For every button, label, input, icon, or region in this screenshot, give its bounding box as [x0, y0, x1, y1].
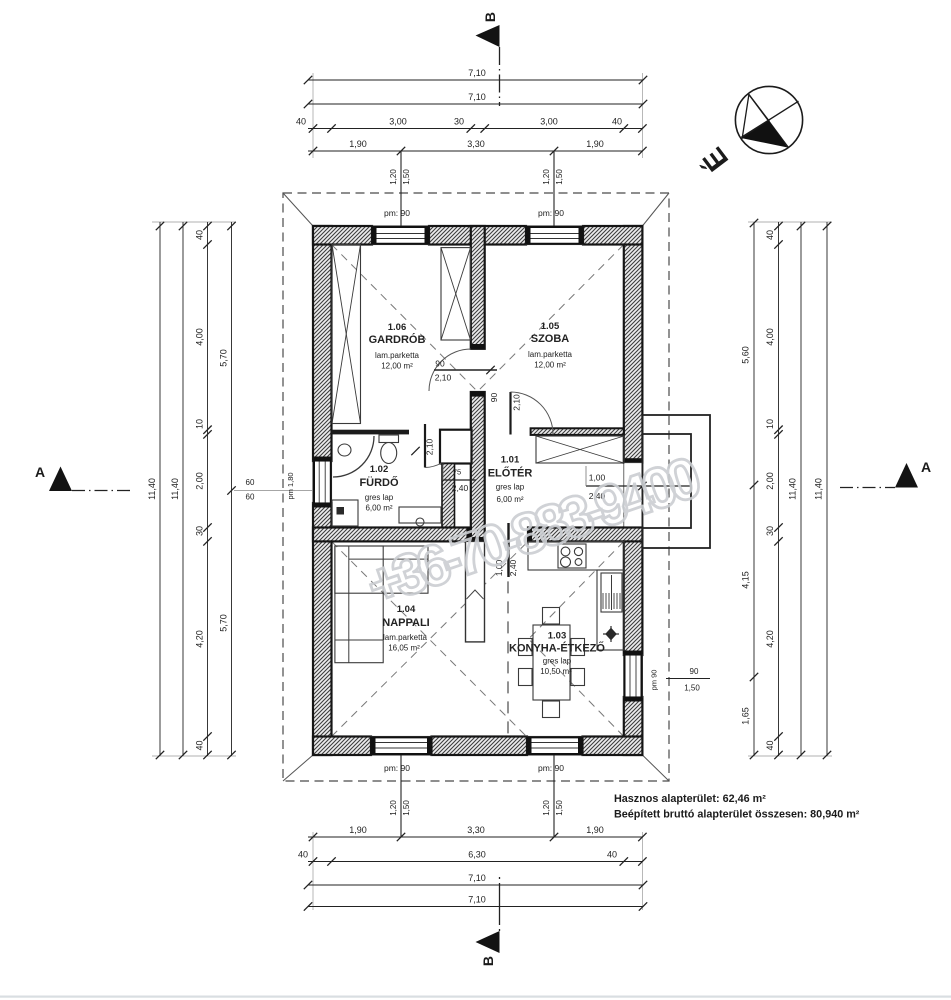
- corridor wall stub bottom cap: [471, 537, 485, 541]
- window right kitchen: [624, 655, 643, 697]
- door szoba leaf: [509, 392, 511, 435]
- dim chain L4 5,70/5,70: [219, 222, 236, 759]
- svg-text:pm: 90: pm: 90: [384, 208, 410, 218]
- chair left 1: [519, 639, 533, 656]
- svg-text:pm: 90: pm: 90: [538, 763, 564, 773]
- ceiling diagonal konyha 1: [529, 541, 624, 639]
- door szoba arc: [511, 392, 554, 435]
- sofa nappali: [335, 546, 428, 663]
- svg-text:75: 75: [453, 468, 461, 477]
- room label konyha: [509, 631, 605, 677]
- svg-text:B: B: [480, 956, 496, 966]
- svg-text:pm: 90: pm: 90: [384, 763, 410, 773]
- partition gardrob/szoba: [471, 226, 485, 349]
- svg-text:40: 40: [296, 117, 306, 127]
- right chains top connector: [748, 221, 832, 223]
- svg-text:1,20: 1,20: [389, 169, 398, 185]
- corridor wall stub top cap: [471, 392, 485, 397]
- svg-text:pm 1,80: pm 1,80: [286, 472, 295, 499]
- svg-text:gres lap: gres lap: [496, 483, 525, 492]
- window axis bottom-left: [400, 755, 402, 837]
- sill labels bottom-right: [542, 800, 564, 816]
- svg-text:2,00: 2,00: [765, 472, 775, 490]
- terrace outer outline: [642, 415, 710, 548]
- svg-text:12,00 m²: 12,00 m²: [381, 362, 413, 371]
- window axis top-right: [553, 151, 555, 226]
- svg-text:KONYHA-ÉTKEZŐ: KONYHA-ÉTKEZŐ: [509, 642, 605, 655]
- bottom wall middle block: [432, 737, 528, 756]
- wall bathroom/shaft: [440, 430, 471, 435]
- top wall right block: [583, 226, 642, 245]
- extension line bottom right: [641, 832, 643, 910]
- svg-text:1,90: 1,90: [586, 825, 604, 835]
- roof hip line bottom-left: [283, 755, 313, 781]
- svg-text:7,10: 7,10: [468, 68, 486, 78]
- svg-text:1.01: 1.01: [501, 455, 520, 466]
- chair left 2: [519, 669, 533, 686]
- section marker B top triangle: [476, 25, 500, 47]
- dim row t1 7,10: [304, 68, 647, 84]
- wall nappali north: [313, 528, 471, 542]
- svg-text:SZOBA: SZOBA: [531, 333, 570, 345]
- room label nappali: [382, 604, 429, 653]
- left outer wall upper segment: [313, 226, 332, 461]
- dim chain R1 5,60/4,15/1,65: [741, 219, 759, 759]
- svg-text:40: 40: [195, 740, 205, 750]
- section marker B bottom triangle: [476, 931, 500, 953]
- room label szoba: [528, 321, 573, 370]
- svg-text:10: 10: [765, 419, 775, 429]
- wardrobe hall: [536, 436, 624, 463]
- left window width labels 60/60: [246, 478, 255, 502]
- wall szoba/hall: [531, 428, 624, 435]
- svg-text:12,00 m²: 12,00 m²: [534, 361, 566, 370]
- svg-text:11,40: 11,40: [788, 478, 798, 500]
- svg-text:10,50 m²: 10,50 m²: [540, 667, 572, 676]
- svg-text:7,10: 7,10: [468, 895, 486, 905]
- wall bathroom/eloter: [442, 464, 455, 528]
- washing machine: [332, 500, 358, 526]
- roof eaves dashed outline: [283, 193, 669, 781]
- svg-text:2,10: 2,10: [512, 394, 522, 411]
- window bottom-right konyha: [527, 737, 583, 756]
- svg-text:1,50: 1,50: [402, 800, 411, 816]
- svg-text:11,40: 11,40: [814, 478, 824, 500]
- compass cross line 1: [741, 101, 798, 137]
- svg-text:Beépített bruttó alapterület ö: Beépített bruttó alapterület összesen: 8…: [614, 809, 860, 821]
- ceiling diagonal gardrob: [332, 245, 477, 391]
- svg-text:3,00: 3,00: [389, 117, 407, 127]
- dim chain R4 11,40: [814, 222, 832, 759]
- wardrobe gardrob top: [441, 248, 471, 340]
- window top-left gardrob: [372, 226, 429, 245]
- chair bottom: [543, 701, 560, 718]
- dim row b3 7,10: [304, 873, 647, 889]
- svg-text:1.03: 1.03: [548, 631, 567, 642]
- section marker A left triangle: [49, 467, 72, 492]
- svg-text:90: 90: [489, 393, 499, 403]
- svg-text:5,70: 5,70: [219, 349, 229, 367]
- door gardrob dim line: [434, 369, 497, 371]
- svg-text:90: 90: [690, 667, 699, 676]
- svg-text:A: A: [921, 459, 931, 475]
- terrace door dim line: [586, 485, 691, 487]
- wardrobe gardrob left: [332, 245, 361, 424]
- svg-text:pm 90: pm 90: [650, 670, 659, 691]
- svg-text:40: 40: [765, 740, 775, 750]
- svg-text:1,20: 1,20: [542, 800, 551, 816]
- dim chain L1 11,40: [147, 222, 164, 759]
- svg-text:10: 10: [195, 419, 205, 429]
- window bottom-left nappali: [371, 737, 432, 756]
- svg-text:1,50: 1,50: [684, 684, 700, 693]
- dim row b4 7,10: [304, 895, 647, 911]
- dim row t2 7,10: [304, 92, 647, 108]
- sill labels bottom-left: [389, 800, 411, 816]
- wall nappali north end cap: [466, 528, 470, 542]
- chair top: [543, 608, 560, 625]
- door nappali leaf: [466, 541, 485, 642]
- wall konyha north end cap: [528, 528, 532, 542]
- svg-text:gres lap: gres lap: [365, 493, 394, 502]
- svg-text:11,40: 11,40: [170, 478, 180, 500]
- door bathroom leaf: [424, 424, 426, 468]
- svg-text:1,50: 1,50: [555, 800, 564, 816]
- window axis top-left: [400, 151, 402, 226]
- svg-text:4,00: 4,00: [195, 328, 205, 346]
- svg-text:60: 60: [246, 493, 255, 502]
- svg-text:1,20: 1,20: [542, 169, 551, 185]
- roof hip line bottom-right: [642, 755, 669, 781]
- dim chain R3 11,40: [788, 222, 806, 759]
- svg-text:1,50: 1,50: [402, 169, 411, 185]
- svg-text:6,00 m²: 6,00 m²: [365, 504, 392, 513]
- dim row t3 40/3,00/30/3,00/40: [296, 117, 647, 133]
- svg-text:5,70: 5,70: [219, 614, 229, 632]
- right kitchen window labels: [650, 667, 701, 693]
- kitchen boiler: [601, 573, 622, 612]
- roof hip line top-left: [283, 193, 313, 226]
- kitchen counter top: [528, 541, 624, 570]
- section marker A right triangle: [895, 463, 918, 488]
- door gardrob arc: [429, 349, 471, 391]
- svg-text:1,20: 1,20: [389, 800, 398, 816]
- compass cross line 2: [749, 95, 789, 148]
- svg-text:1,50: 1,50: [555, 169, 564, 185]
- section line A right: [840, 487, 895, 489]
- roof hip line top-right: [642, 193, 669, 226]
- svg-text:6,30: 6,30: [468, 850, 486, 860]
- svg-text:40: 40: [298, 850, 308, 860]
- kitchen sink symbol: [603, 626, 619, 642]
- svg-text:2,00: 2,00: [195, 472, 205, 490]
- window top-right szoba: [526, 226, 583, 245]
- ceiling diagonal nappali 2: [332, 541, 529, 736]
- svg-text:lam.parketta: lam.parketta: [375, 351, 420, 360]
- svg-text:ELŐTÉR: ELŐTÉR: [488, 467, 533, 480]
- svg-text:B: B: [482, 12, 498, 22]
- kitchen stove: [558, 544, 586, 568]
- svg-text:1,65: 1,65: [741, 707, 751, 725]
- svg-text:3,30: 3,30: [467, 139, 485, 149]
- extension line top right: [641, 73, 643, 158]
- toilet: [379, 435, 399, 464]
- svg-text:1.02: 1.02: [370, 464, 389, 475]
- bottom page rule: [0, 996, 951, 998]
- svg-text:2,10: 2,10: [425, 438, 435, 455]
- svg-text:30: 30: [454, 117, 464, 127]
- shower: [333, 436, 374, 477]
- top wall left block: [313, 226, 372, 245]
- svg-text:NAPPALI: NAPPALI: [382, 617, 429, 629]
- ceiling diagonal konyha 2: [529, 639, 624, 737]
- left chains top connector: [152, 221, 236, 223]
- shaft niche: [440, 430, 472, 464]
- svg-text:3,00: 3,00: [540, 117, 558, 127]
- right wall cap below terrace door: [624, 528, 643, 533]
- right chains bottom connector: [748, 755, 832, 757]
- sill labels top-left: [389, 169, 411, 185]
- svg-text:1,90: 1,90: [586, 139, 604, 149]
- dim row t4 1,90/3,30/1,90: [308, 139, 647, 155]
- door bathroom arc: [425, 463, 442, 468]
- svg-text:40: 40: [607, 850, 617, 860]
- corridor wall stub: [471, 392, 485, 541]
- extension line top left: [312, 73, 314, 158]
- svg-text:1.06: 1.06: [388, 322, 407, 333]
- dim row b2 40/6,30/40: [298, 850, 647, 866]
- terrace door threshold: [624, 463, 643, 528]
- svg-text:FÜRDŐ: FÜRDŐ: [359, 476, 399, 489]
- window left bathroom: [313, 461, 332, 503]
- svg-text:3,30: 3,30: [467, 825, 485, 835]
- room label gardrob: [369, 322, 426, 371]
- extension line bottom left: [312, 832, 314, 910]
- bottom wall left block: [313, 737, 371, 756]
- ceiling diagonal nappali 1: [332, 541, 527, 736]
- svg-text:4,20: 4,20: [765, 630, 775, 648]
- svg-text:1.05: 1.05: [541, 321, 560, 332]
- right kitchen window dim line: [666, 678, 710, 680]
- room label eloter: [488, 455, 533, 505]
- chair right 2: [571, 669, 585, 686]
- svg-text:7,10: 7,10: [468, 873, 486, 883]
- svg-text:GARDRÓB: GARDRÓB: [369, 333, 426, 346]
- section line B bottom: [499, 877, 501, 931]
- svg-text:pm: 90: pm: 90: [538, 208, 564, 218]
- compass circle: [735, 86, 802, 153]
- svg-text:A: A: [35, 464, 45, 480]
- section line A left: [72, 490, 131, 492]
- svg-text:2,10: 2,10: [435, 373, 452, 383]
- svg-text:40: 40: [612, 117, 622, 127]
- left outer wall lower segment: [313, 503, 332, 755]
- svg-text:4,15: 4,15: [741, 571, 751, 589]
- bathroom vanity: [399, 507, 441, 526]
- ceiling diagonal szoba: [479, 245, 624, 391]
- svg-text:11,40: 11,40: [147, 478, 157, 500]
- section line B top: [499, 47, 501, 106]
- dim row b1 1,90/3,30/1,90: [308, 825, 647, 841]
- left window extension line: [234, 490, 313, 492]
- terrace inner outline: [642, 434, 691, 528]
- window jambs and face lines: [372, 226, 377, 245]
- svg-text:4,00: 4,00: [765, 328, 775, 346]
- svg-text:30: 30: [195, 526, 205, 536]
- svg-text:40: 40: [195, 230, 205, 240]
- wall gardrob/bathroom: [332, 430, 410, 435]
- sill labels top-right: [542, 169, 564, 185]
- svg-text:5,60: 5,60: [741, 346, 751, 364]
- dim chain R2 segments: [765, 222, 783, 759]
- top wall middle block: [429, 226, 526, 245]
- svg-text:90: 90: [435, 359, 445, 369]
- svg-text:1,90: 1,90: [349, 139, 367, 149]
- right wall cap above terrace door: [624, 458, 643, 463]
- svg-text:40: 40: [765, 230, 775, 240]
- kitchen counter right: [597, 570, 624, 650]
- svg-text:16,05 m²: 16,05 m²: [388, 644, 420, 653]
- svg-text:7,10: 7,10: [468, 92, 486, 102]
- svg-text:60: 60: [246, 478, 255, 487]
- dim chain L2 11,40: [170, 222, 187, 759]
- svg-text:1,90: 1,90: [349, 825, 367, 835]
- chair right 1: [571, 639, 585, 656]
- window axis bottom-right: [553, 755, 555, 837]
- dim chain L3 segments: [195, 222, 212, 759]
- svg-text:Hasznos alapterület: 62,46 m²: Hasznos alapterület: 62,46 m²: [614, 793, 766, 805]
- partition gardrob/szoba end cap: [471, 344, 485, 349]
- compass needle filled: [742, 121, 787, 148]
- svg-text:lam.parketta: lam.parketta: [383, 633, 428, 642]
- svg-text:30: 30: [765, 526, 775, 536]
- svg-text:2,40: 2,40: [452, 483, 469, 493]
- bottom wall right block: [583, 737, 643, 756]
- compass needle outline: [742, 95, 769, 139]
- left chains bottom connector: [152, 755, 236, 757]
- right outer wall lower segment: [624, 697, 643, 755]
- kitchen opening dim line: [507, 523, 509, 577]
- right outer wall upper segment: [624, 226, 643, 463]
- wall konyha north: [528, 528, 642, 542]
- room label furdo: [359, 464, 399, 513]
- right outer wall middle segment: [624, 528, 643, 656]
- door nappali leaf chevron: [467, 590, 484, 599]
- svg-text:lam.parketta: lam.parketta: [528, 350, 573, 359]
- svg-text:4,20: 4,20: [195, 630, 205, 648]
- dining table: [533, 625, 570, 700]
- door bathroom dim line: [443, 479, 476, 481]
- nappali/konyha dashed boundary: [507, 541, 509, 736]
- svg-text:gres lap: gres lap: [543, 657, 572, 666]
